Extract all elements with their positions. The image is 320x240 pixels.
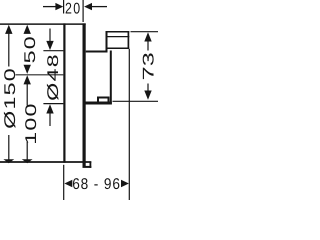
foot box below plate bottom — [83, 162, 92, 168]
plate left edge — [63, 23, 65, 162]
dimension 73: label — [141, 52, 158, 80]
handle centerline extension — [16, 74, 64, 76]
dimension 68-96: left extension line — [63, 165, 65, 200]
knob box top edge — [106, 31, 130, 33]
dimension 100: lower shaft — [26, 142, 28, 160]
bottom tab on body underside — [97, 97, 110, 102]
dimension Ø48: lower shaft — [49, 113, 51, 126]
dimension 20: extension line right — [82, 0, 84, 22]
valve body right edge — [110, 51, 112, 105]
svg-text:Ø 150: Ø 150 — [2, 67, 19, 129]
knob box bottom edge — [108, 47, 130, 49]
knob box left edge — [106, 31, 108, 53]
dimension 50: down arrow of bowtie — [24, 65, 31, 74]
dimension 73: up arrow — [144, 32, 151, 41]
dimension 68-96: right extension line (from knob box) — [128, 49, 130, 200]
dimension 20: left line segment — [43, 6, 56, 8]
plate top edge with left extension line — [0, 23, 86, 25]
dimension 100: upper shaft — [26, 84, 28, 106]
dimension Ø150: upper shaft — [8, 33, 10, 67]
dimension Ø48: lower boundary line — [43, 103, 63, 105]
dimension 50: label — [22, 35, 39, 63]
dimension 68-96: left-pointing arrow — [64, 180, 72, 187]
svg-text:100: 100 — [23, 102, 40, 144]
dimension 73: bottom extension line — [113, 100, 159, 102]
valve body top edge — [86, 51, 108, 53]
dimension Ø48: down arrow — [46, 41, 53, 50]
dimension 73: top extension line — [131, 31, 159, 33]
dimension 20: left-pointing arrow — [84, 3, 92, 10]
dimension Ø48: up arrow — [46, 104, 53, 113]
dimension 73: lower shaft — [147, 84, 149, 92]
dimension Ø150: label — [2, 67, 19, 129]
dimension Ø150: down arrow — [3, 159, 14, 163]
dimension 68-96: right-pointing arrow — [121, 180, 129, 187]
dimension 68-96: text — [72, 176, 121, 193]
svg-text:20: 20 — [65, 1, 81, 18]
dimension 100: down arrow — [22, 159, 33, 163]
plate right edge (wall line, thick) — [82, 23, 85, 167]
dimension 20: extension line left — [63, 0, 65, 14]
dimension 73: down arrow — [144, 91, 151, 100]
dimension 73: upper shaft — [147, 41, 149, 51]
svg-text:68 - 96: 68 - 96 — [72, 176, 121, 193]
dimension 20: text — [65, 1, 81, 18]
dimension 100: label — [23, 102, 40, 144]
dimension Ø48: upper boundary line — [43, 50, 63, 52]
dimension 20: right-pointing arrow — [55, 3, 63, 10]
dimension 100: up arrow of bowtie — [24, 75, 31, 84]
svg-text:Ø 48: Ø 48 — [45, 53, 62, 101]
dimension 50: up arrow — [24, 25, 31, 34]
dimension Ø48: label — [45, 53, 62, 101]
dimension 20: right line segment — [92, 6, 108, 8]
svg-text:73: 73 — [141, 52, 158, 80]
dimension Ø150: lower shaft — [8, 135, 10, 160]
knob box right edge — [127, 31, 129, 49]
plate bottom edge with left extension line — [0, 161, 91, 163]
valve body bottom edge — [84, 102, 112, 105]
svg-text:50: 50 — [22, 35, 39, 63]
dimension Ø48: upper shaft — [49, 29, 51, 42]
knob box inner line — [108, 36, 130, 38]
dimension Ø150: up arrow — [5, 25, 12, 34]
